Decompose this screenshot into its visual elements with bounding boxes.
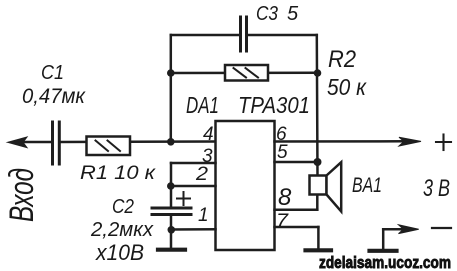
plus terminal arrow xyxy=(399,137,421,146)
svg-text:BA1: BA1 xyxy=(352,174,382,197)
svg-text:50 к: 50 к xyxy=(327,74,367,100)
svg-text:2: 2 xyxy=(195,164,209,185)
wire left vertical from top loop to pin4 node xyxy=(170,35,173,142)
svg-text:0,47мк: 0,47мк xyxy=(22,85,86,108)
svg-text:3 В: 3 В xyxy=(423,175,450,202)
minus terminal arrow xyxy=(399,225,419,234)
wire pin 6 to plus terminal xyxy=(275,140,405,143)
watermark zdelaisam.ucoz.com xyxy=(319,253,451,271)
svg-text:TPA301: TPA301 xyxy=(238,92,310,118)
node junction pin5 output xyxy=(314,158,322,166)
wire pin 1 xyxy=(171,228,215,231)
wire input line from arrow to IC pin 4 xyxy=(22,140,216,143)
svg-text:4: 4 xyxy=(203,124,214,145)
wire right vertical from top loop to speaker xyxy=(316,35,319,176)
svg-text:DA1: DA1 xyxy=(186,92,219,118)
ground at C2 xyxy=(158,248,185,252)
input terminal arrow xyxy=(8,137,28,148)
svg-text:R2: R2 xyxy=(328,46,356,73)
node junction R2 left xyxy=(167,69,175,77)
op-amp IC DA1 TPA301 body xyxy=(216,121,275,250)
wire pin 5 xyxy=(275,161,318,164)
svg-text:zdelaisam.ucoz.com: zdelaisam.ucoz.com xyxy=(319,253,451,271)
capacitor C3 xyxy=(241,17,247,51)
node junction pin4 xyxy=(167,138,175,146)
wire below C2 to ground xyxy=(170,216,173,248)
svg-text:C1: C1 xyxy=(41,62,64,84)
resistor R2 xyxy=(225,65,268,81)
wire pin 3 to bypass vertical xyxy=(171,163,216,207)
svg-text:R1 10 к: R1 10 к xyxy=(80,163,156,184)
node junction pin1 xyxy=(168,226,176,234)
wire minus terminal to ground xyxy=(383,229,402,249)
wire top feedback line xyxy=(171,34,317,37)
node junction pin2 xyxy=(167,182,175,190)
node junction R2 right xyxy=(314,69,322,77)
svg-text:х10В: х10В xyxy=(95,240,144,265)
svg-text:C3: C3 xyxy=(256,3,278,25)
svg-text:1: 1 xyxy=(198,205,209,226)
minus sign xyxy=(432,227,451,229)
speaker BA1 xyxy=(310,162,342,211)
svg-text:8: 8 xyxy=(278,184,292,211)
C2 plus polarity mark xyxy=(177,192,190,205)
plus sign xyxy=(436,135,451,151)
capacitor C1 xyxy=(53,122,60,164)
svg-text:5: 5 xyxy=(287,3,299,25)
ground at minus terminal xyxy=(370,249,397,253)
wire pin 7 to ground xyxy=(275,227,319,249)
svg-text:2,2мкх: 2,2мкх xyxy=(90,219,154,241)
svg-text:7: 7 xyxy=(276,211,290,232)
svg-text:C2: C2 xyxy=(112,196,134,218)
svg-text:5: 5 xyxy=(277,142,288,163)
wire R2 row xyxy=(171,72,318,75)
resistor R1 xyxy=(87,137,131,156)
ground at pin 7 xyxy=(306,248,332,252)
capacitor C2 electrolytic xyxy=(152,208,191,215)
svg-text:Вход: Вход xyxy=(3,168,41,222)
wire pin 2 xyxy=(171,185,216,188)
wire pin 8 to speaker xyxy=(275,195,318,210)
